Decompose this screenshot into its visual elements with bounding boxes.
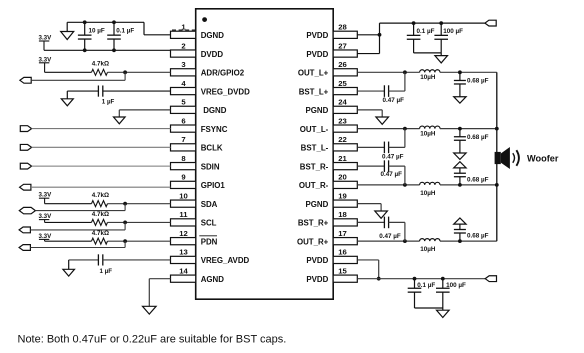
svg-text:DGND: DGND <box>201 31 225 40</box>
svg-text:0.68 µF: 0.68 µF <box>467 78 489 85</box>
svg-text:10 µF: 10 µF <box>89 28 105 35</box>
svg-text:PVDD: PVDD <box>306 31 328 40</box>
svg-text:AGND: AGND <box>201 275 225 284</box>
svg-text:PGND: PGND <box>305 106 328 115</box>
svg-text:19: 19 <box>338 191 347 200</box>
svg-text:DGND: DGND <box>203 106 227 115</box>
svg-text:BCLK: BCLK <box>201 144 223 153</box>
svg-text:PVDD: PVDD <box>306 275 328 284</box>
svg-text:27: 27 <box>338 41 347 50</box>
svg-text:0.47 µF: 0.47 µF <box>381 171 403 178</box>
svg-text:ADR/GPIO2: ADR/GPIO2 <box>201 69 245 78</box>
svg-text:14: 14 <box>179 266 188 275</box>
svg-text:VREG_DVDD: VREG_DVDD <box>201 87 250 96</box>
svg-text:22: 22 <box>338 135 347 144</box>
svg-text:12: 12 <box>179 229 188 238</box>
svg-text:24: 24 <box>338 98 347 107</box>
svg-text:0.68 µF: 0.68 µF <box>467 176 489 183</box>
svg-text:0.47 µF: 0.47 µF <box>382 154 404 161</box>
svg-text:20: 20 <box>338 173 347 182</box>
svg-text:PVDD: PVDD <box>306 50 328 59</box>
svg-text:0.47 µF: 0.47 µF <box>379 233 401 240</box>
svg-text:13: 13 <box>179 248 188 257</box>
svg-text:PVDD: PVDD <box>306 256 328 265</box>
svg-text:4.7kΩ: 4.7kΩ <box>92 211 109 218</box>
svg-text:Woofer: Woofer <box>527 153 559 163</box>
svg-text:OUT_R+: OUT_R+ <box>297 237 329 246</box>
svg-text:PGND: PGND <box>305 200 328 209</box>
svg-text:BST_L+: BST_L+ <box>299 87 329 96</box>
svg-text:SDIN: SDIN <box>201 162 220 171</box>
svg-text:100 µF: 100 µF <box>446 282 466 289</box>
svg-text:SCL: SCL <box>201 219 217 228</box>
svg-text:OUT_L+: OUT_L+ <box>298 69 329 78</box>
svg-text:23: 23 <box>338 116 347 125</box>
svg-text:0.1 µF: 0.1 µF <box>417 282 435 289</box>
svg-text:10µH: 10µH <box>420 190 436 197</box>
svg-text:VREG_AVDD: VREG_AVDD <box>201 256 250 265</box>
svg-text:10µH: 10µH <box>420 130 436 137</box>
svg-text:4: 4 <box>181 79 186 88</box>
svg-text:10µH: 10µH <box>420 246 436 253</box>
svg-text:BST_L-: BST_L- <box>301 144 329 153</box>
svg-text:OUT_L-: OUT_L- <box>300 125 329 134</box>
svg-text:5: 5 <box>181 98 186 107</box>
svg-text:0.1 µF: 0.1 µF <box>417 28 435 35</box>
svg-text:0.68 µF: 0.68 µF <box>467 134 489 141</box>
svg-text:SDA: SDA <box>201 200 218 209</box>
svg-text:GPIO1: GPIO1 <box>201 181 226 190</box>
svg-text:21: 21 <box>338 154 347 163</box>
svg-text:16: 16 <box>338 248 347 257</box>
svg-text:Note: Both 0.47uF or 0.22uF ar: Note: Both 0.47uF or 0.22uF are suitable… <box>18 334 287 346</box>
svg-text:15: 15 <box>338 266 347 275</box>
svg-text:10: 10 <box>179 191 188 200</box>
svg-text:17: 17 <box>338 229 347 238</box>
svg-text:2: 2 <box>181 41 185 50</box>
svg-text:4.7kΩ: 4.7kΩ <box>92 230 109 237</box>
svg-text:26: 26 <box>338 60 347 69</box>
svg-text:4.7kΩ: 4.7kΩ <box>92 61 109 68</box>
svg-text:0.68 µF: 0.68 µF <box>467 232 489 239</box>
svg-text:1 µF: 1 µF <box>102 99 115 106</box>
svg-text:7: 7 <box>181 135 185 144</box>
svg-text:4.7kΩ: 4.7kΩ <box>92 192 109 199</box>
svg-text:25: 25 <box>338 79 347 88</box>
svg-text:100 µF: 100 µF <box>443 28 463 35</box>
svg-text:6: 6 <box>181 116 185 125</box>
svg-text:PDN: PDN <box>201 237 218 246</box>
svg-text:FSYNC: FSYNC <box>201 125 228 134</box>
svg-text:9: 9 <box>181 173 185 182</box>
svg-text:OUT_R-: OUT_R- <box>299 181 329 190</box>
svg-text:11: 11 <box>179 210 188 219</box>
svg-text:DVDD: DVDD <box>201 50 224 59</box>
svg-text:1 µF: 1 µF <box>100 268 113 275</box>
svg-text:28: 28 <box>338 23 347 32</box>
svg-text:0.1 µF: 0.1 µF <box>116 28 134 35</box>
svg-text:8: 8 <box>181 154 186 163</box>
svg-text:18: 18 <box>338 210 347 219</box>
svg-text:10µH: 10µH <box>420 74 436 81</box>
svg-text:BST_R+: BST_R+ <box>298 219 329 228</box>
svg-text:0.47 µF: 0.47 µF <box>383 97 405 104</box>
svg-text:BST_R-: BST_R- <box>300 162 329 171</box>
svg-text:3: 3 <box>181 60 185 69</box>
